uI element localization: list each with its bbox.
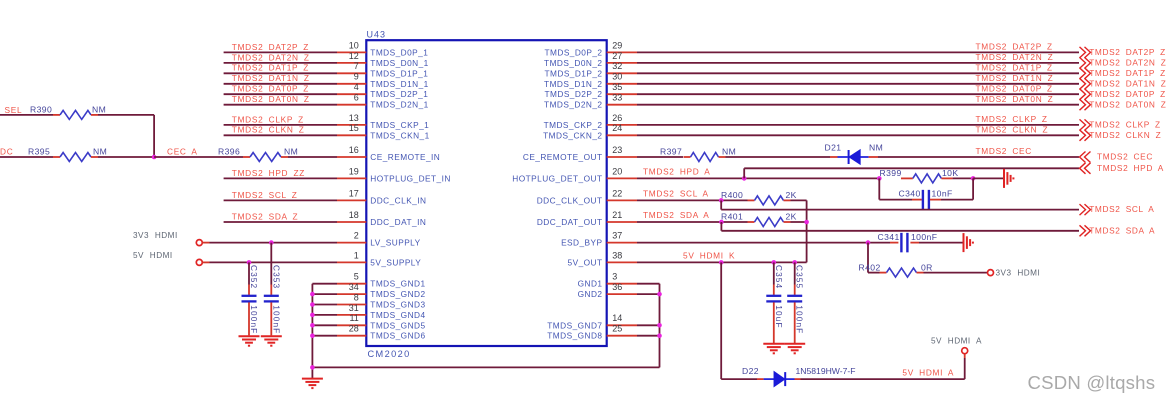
svg-text:TMDS2 HPD A: TMDS2 HPD A xyxy=(643,167,710,177)
svg-text:10: 10 xyxy=(349,40,359,50)
wire TMDS2 DAT2N Z left xyxy=(224,62,337,64)
wire pin 21 TMDS2 SDA A xyxy=(637,221,748,223)
junction xyxy=(719,220,724,225)
U43 pin 1 (5V_SUPPLY) xyxy=(337,250,421,267)
junction xyxy=(310,292,315,297)
wire TMDS_GND2 to bus xyxy=(312,293,337,295)
net label TMDS2 HPD ZZ xyxy=(232,168,305,178)
U43 pin 3 (GND1) xyxy=(578,272,637,289)
svg-text:3V3 HDMI: 3V3 HDMI xyxy=(133,231,178,240)
U43 pin 24 (TMDS_CKN_2) xyxy=(543,123,637,140)
net label 5V HDMI K xyxy=(683,251,735,261)
svg-text:NM: NM xyxy=(722,147,736,157)
svg-text:100nF: 100nF xyxy=(911,232,937,242)
svg-text:TMDS2 DAT1N Z: TMDS2 DAT1N Z xyxy=(1089,78,1166,88)
net label TMDS2 CLKN Z left xyxy=(232,125,305,135)
svg-text:1N5819HW-7-F: 1N5819HW-7-F xyxy=(796,366,856,376)
svg-text:TMDS2 HPD ZZ: TMDS2 HPD ZZ xyxy=(232,168,305,178)
svg-text:5V_OUT: 5V_OUT xyxy=(568,257,603,267)
svg-text:TMDS_CKN_2: TMDS_CKN_2 xyxy=(543,130,602,140)
svg-text:TMDS2 DAT1P Z: TMDS2 DAT1P Z xyxy=(1089,68,1166,78)
svg-text:TMDS_GND1: TMDS_GND1 xyxy=(370,279,425,289)
svg-text:9: 9 xyxy=(354,72,359,82)
wire TMDS_GND5 to bus xyxy=(312,324,337,326)
wire DC net xyxy=(0,156,53,158)
wire R399 right to junction xyxy=(953,177,974,179)
svg-text:19: 19 xyxy=(349,166,359,176)
U43 pin 35 (TMDS_D2P_2) xyxy=(545,82,638,99)
svg-text:TMDS2 DAT2P Z: TMDS2 DAT2P Z xyxy=(976,42,1053,52)
svg-text:TMDS2 SDA A: TMDS2 SDA A xyxy=(1089,225,1155,235)
junction xyxy=(719,260,724,265)
junction xyxy=(657,292,662,297)
net label TMDS2 DAT2N Z left xyxy=(232,52,310,62)
resistor R395 (NM) xyxy=(28,147,107,162)
off-page connector TMDS2 DAT2N Z xyxy=(1080,57,1167,68)
off-page connector TMDS2 SCL A xyxy=(1080,204,1155,215)
wire GND pin to right bus xyxy=(637,335,660,337)
svg-text:TMDS2 DAT1P Z: TMDS2 DAT1P Z xyxy=(232,63,309,73)
svg-text:TMDS2 DAT0N Z: TMDS2 DAT0N Z xyxy=(1089,99,1166,109)
wire SDA jog to off-page xyxy=(721,222,1079,231)
net label TMDS2 DAT2P Z left xyxy=(232,42,309,52)
svg-text:DC: DC xyxy=(0,146,13,156)
svg-text:TMDS_D2P_1: TMDS_D2P_1 xyxy=(370,89,428,99)
wire junction to ground xyxy=(973,177,1004,179)
wire pin 38 5V HDMI K xyxy=(637,261,807,263)
net label TMDS2 DAT0P Z left xyxy=(232,84,309,94)
junction xyxy=(657,323,662,328)
net label TMDS2 CLKP Z left xyxy=(232,114,304,124)
wire GND pin to right bus xyxy=(637,283,660,285)
svg-text:100nF: 100nF xyxy=(271,305,281,334)
svg-text:36: 36 xyxy=(612,282,622,292)
net label TMDS2 SDA Z xyxy=(232,211,298,221)
wire GND pin to right bus xyxy=(637,324,660,326)
wire 3V3 HDMI to pin 2 xyxy=(202,242,337,244)
svg-text:R397: R397 xyxy=(660,147,682,157)
svg-text:34: 34 xyxy=(349,282,359,292)
svg-text:R399: R399 xyxy=(880,168,902,178)
net label TMDS2 CLKN Z right xyxy=(976,125,1049,135)
wire GND pin to right bus xyxy=(637,293,660,295)
U43 pin 26 (TMDS_CKP_2) xyxy=(544,113,637,130)
svg-text:5V HDMI A: 5V HDMI A xyxy=(902,367,954,377)
junction xyxy=(877,176,882,181)
svg-text:TMDS_D2P_2: TMDS_D2P_2 xyxy=(545,89,603,99)
wire R390 to CEC node xyxy=(98,115,154,157)
wire pin 37 ESD_BYP xyxy=(637,242,890,244)
U43 pin 37 (ESD_BYP) xyxy=(561,231,637,248)
wire C341 to ground xyxy=(919,242,964,244)
wire TMDS_GND1 to bus xyxy=(312,283,337,285)
wire TMDS2 SCL Z xyxy=(224,199,337,201)
svg-text:TMDS_D0P_2: TMDS_D0P_2 xyxy=(545,47,603,57)
wire TMDS2 DAT2P Z left xyxy=(224,51,337,53)
svg-text:100nF: 100nF xyxy=(249,305,259,334)
U43 pin 38 (5V_OUT) xyxy=(568,250,637,267)
svg-text:ESD_BYP: ESD_BYP xyxy=(561,238,602,248)
svg-text:7: 7 xyxy=(354,61,359,71)
wire R395 to node CEC A xyxy=(98,156,154,158)
U43 pin 14 (TMDS_GND7) xyxy=(547,313,637,330)
svg-text:TMDS_GND2: TMDS_GND2 xyxy=(370,289,425,299)
svg-text:21: 21 xyxy=(612,210,622,220)
wire TMDS2 SDA Z xyxy=(224,221,337,223)
wire TMDS2 CLKN Z right xyxy=(637,134,1079,136)
U43 pin 4 (TMDS_D2P_1) xyxy=(337,82,428,99)
svg-text:TMDS_D0P_1: TMDS_D0P_1 xyxy=(370,47,428,57)
svg-text:23: 23 xyxy=(612,145,622,155)
U43 pin 2 (LV_SUPPLY) xyxy=(337,231,421,248)
wire TMDS2 DAT1P Z right xyxy=(637,72,1079,74)
svg-text:4: 4 xyxy=(354,82,359,92)
net label TMDS2 DAT2P Z right xyxy=(976,42,1053,52)
net label TMDS2 HPD A xyxy=(643,167,710,177)
svg-text:38: 38 xyxy=(612,250,622,260)
svg-text:22: 22 xyxy=(612,188,622,198)
svg-text:TMDS2 SDA A: TMDS2 SDA A xyxy=(643,210,710,220)
junction xyxy=(657,333,662,338)
net label DC xyxy=(0,146,13,156)
wire TMDS2 CLKP Z right xyxy=(637,124,1079,126)
svg-text:0R: 0R xyxy=(921,262,933,272)
svg-text:TMDS_CKP_2: TMDS_CKP_2 xyxy=(544,120,603,130)
svg-text:DDC_CLK_OUT: DDC_CLK_OUT xyxy=(537,195,603,205)
svg-text:CEC A: CEC A xyxy=(167,146,198,156)
svg-text:TMDS2 DAT0P Z: TMDS2 DAT0P Z xyxy=(1089,89,1166,99)
svg-text:R401: R401 xyxy=(721,212,743,222)
wire TMDS2 DAT1N Z right xyxy=(637,83,1079,85)
off-page connector TMDS2 DAT1P Z xyxy=(1080,68,1166,79)
svg-text:30: 30 xyxy=(612,72,622,82)
U43 pin 34 (TMDS_GND2) xyxy=(337,282,426,299)
wire node to R396 xyxy=(154,156,243,158)
svg-text:R395: R395 xyxy=(28,147,50,157)
wire TMDS2 DAT1N Z left xyxy=(224,83,337,85)
terminal 3V3 HDMI xyxy=(133,231,202,246)
junction xyxy=(310,365,315,370)
resistor R401 2K xyxy=(721,212,797,227)
svg-text:TMDS2 DAT0P Z: TMDS2 DAT0P Z xyxy=(976,83,1053,93)
net label TMDS2 DAT2N Z right xyxy=(976,52,1054,62)
svg-text:C340: C340 xyxy=(899,189,921,199)
U43 pin 15 (TMDS_CKN_1) xyxy=(337,123,430,140)
resistor R390 (NM) xyxy=(30,104,106,119)
wire TMDS2 CLKP Z left xyxy=(224,124,337,126)
junction xyxy=(310,313,315,318)
off-page connector TMDS2 DAT1N Z xyxy=(1080,78,1167,89)
svg-text:5: 5 xyxy=(354,272,359,282)
wire HPD jog to off-page xyxy=(744,168,1079,178)
svg-text:DDC_DAT_IN: DDC_DAT_IN xyxy=(370,217,426,227)
svg-text:TMDS_D2N_2: TMDS_D2N_2 xyxy=(544,100,602,110)
wire TMDS2 DAT2N Z right xyxy=(637,62,1079,64)
net label TMDS2 DAT1N Z left xyxy=(232,73,310,83)
ground C353 xyxy=(261,336,282,346)
ground C352 xyxy=(239,336,260,346)
svg-text:TMDS_CKN_1: TMDS_CKN_1 xyxy=(370,130,429,140)
svg-text:2: 2 xyxy=(354,231,359,241)
capacitor C353 100nF xyxy=(264,243,282,336)
svg-text:C341: C341 xyxy=(878,232,900,242)
junction xyxy=(247,260,252,265)
svg-text:NM: NM xyxy=(869,142,883,152)
ground main xyxy=(302,379,323,389)
svg-text:TMDS2 DAT2N Z: TMDS2 DAT2N Z xyxy=(232,52,310,62)
svg-text:SEL: SEL xyxy=(5,105,23,115)
svg-text:NM: NM xyxy=(93,147,107,157)
capacitor C340 10nF xyxy=(879,178,973,209)
terminal 5V HDMI A xyxy=(931,336,982,353)
svg-text:TMDS_D1N_2: TMDS_D1N_2 xyxy=(544,79,602,89)
U43 pin 11 (TMDS_GND5) xyxy=(337,313,426,330)
svg-text:D22: D22 xyxy=(742,366,759,376)
svg-text:11: 11 xyxy=(349,313,358,323)
net label 5V HDMI A xyxy=(902,367,954,377)
svg-text:TMDS_GND6: TMDS_GND6 xyxy=(370,331,425,341)
svg-text:10nF: 10nF xyxy=(932,189,953,199)
ground C354 xyxy=(763,344,784,354)
capacitor C355 100nF xyxy=(787,262,805,343)
wire D21 to TMDS2 CEC off-page xyxy=(878,156,1079,158)
wire TMDS2 DAT2P Z right xyxy=(637,51,1079,53)
svg-text:10K: 10K xyxy=(942,168,959,178)
junction xyxy=(310,323,315,328)
off-page connector TMDS2 CLKN Z xyxy=(1080,130,1162,141)
wire TMDS2 DAT0P Z right xyxy=(637,93,1079,95)
svg-text:R402: R402 xyxy=(859,262,881,272)
wire TMDS_GND6 to bus xyxy=(312,335,337,337)
svg-text:TMDS2 DAT0N Z: TMDS2 DAT0N Z xyxy=(232,94,310,104)
svg-text:TMDS2 CLKP Z: TMDS2 CLKP Z xyxy=(976,114,1048,124)
net label TMDS2 DAT1P Z left xyxy=(232,63,309,73)
wire TMDS_GND3 to bus xyxy=(312,304,337,306)
svg-text:15: 15 xyxy=(349,123,359,133)
net label TMDS2 SCL A xyxy=(643,189,709,199)
wire left TMDS_GND bus vertical xyxy=(311,284,313,379)
U43 pin 7 (TMDS_D1P_1) xyxy=(337,61,428,78)
ground HPD pulldown xyxy=(1004,169,1013,188)
svg-text:3V3 HDMI: 3V3 HDMI xyxy=(996,269,1041,278)
U43 pin 33 (TMDS_D2N_2) xyxy=(544,93,637,110)
U43 pin 19 (HOTPLUG_DET_IN) xyxy=(337,166,451,183)
U43 pin 23 (CE_REMOTE_OUT) xyxy=(523,145,637,162)
svg-text:GND2: GND2 xyxy=(578,289,603,299)
svg-text:5V_SUPPLY: 5V_SUPPLY xyxy=(370,257,421,267)
net label TMDS2 CLKP Z right xyxy=(976,114,1048,124)
IC U43 CM2020 body xyxy=(366,29,606,359)
svg-text:25: 25 xyxy=(612,324,622,334)
ground C355 xyxy=(784,344,805,354)
svg-text:R396: R396 xyxy=(218,147,240,157)
junction xyxy=(742,176,747,181)
off-page connector TMDS2 HPD A xyxy=(1080,163,1164,174)
net label TMDS2 SCL Z xyxy=(232,190,298,200)
wire pin 20 TMDS2 HPD A xyxy=(637,177,879,179)
wire 5V K down to D22 xyxy=(721,262,757,379)
off-page connector TMDS2 DAT0N Z xyxy=(1080,99,1167,110)
wire TMDS2 DAT0N Z left xyxy=(224,104,337,106)
svg-text:TMDS2 SCL A: TMDS2 SCL A xyxy=(1089,204,1154,214)
svg-text:12: 12 xyxy=(349,51,359,61)
svg-text:TMDS_D0N_1: TMDS_D0N_1 xyxy=(370,58,428,68)
wire pin 22 TMDS2 SCL A xyxy=(637,199,748,201)
svg-text:TMDS_CKP_1: TMDS_CKP_1 xyxy=(370,120,429,130)
wire SCL jog to off-page xyxy=(721,200,1079,209)
svg-text:TMDS_D1P_2: TMDS_D1P_2 xyxy=(545,68,603,78)
junction xyxy=(269,240,274,245)
svg-text:TMDS2 DAT2P Z: TMDS2 DAT2P Z xyxy=(232,42,309,52)
wire right GND bus vertical xyxy=(659,284,661,368)
svg-text:TMDS2 DAT1P Z: TMDS2 DAT1P Z xyxy=(976,63,1053,73)
U43 pin 31 (TMDS_GND4) xyxy=(337,303,426,320)
svg-text:TMDS_D1N_1: TMDS_D1N_1 xyxy=(370,79,428,89)
svg-text:16: 16 xyxy=(349,145,359,155)
wire TMDS2 DAT0P Z left xyxy=(224,93,337,95)
svg-text:28: 28 xyxy=(349,324,359,334)
resistor R396 (NM) xyxy=(218,147,298,162)
svg-text:TMDS2 CEC: TMDS2 CEC xyxy=(976,146,1032,156)
resistor R397 (NM) xyxy=(660,147,736,162)
svg-text:TMDS2 CLKP Z: TMDS2 CLKP Z xyxy=(1089,120,1161,130)
svg-text:TMDS_GND4: TMDS_GND4 xyxy=(370,310,425,320)
svg-text:100nF: 100nF xyxy=(795,305,805,334)
net label TMDS2 DAT1N Z right xyxy=(976,73,1054,83)
svg-text:TMDS2 DAT2N Z: TMDS2 DAT2N Z xyxy=(976,52,1054,62)
junction xyxy=(866,240,871,245)
svg-text:TMDS2 HPD A: TMDS2 HPD A xyxy=(1097,163,1164,173)
diode D21 (NM) xyxy=(825,142,884,164)
off-page connector TMDS2 CEC xyxy=(1080,152,1154,163)
ground C341 xyxy=(964,233,973,252)
wire R396 to pin 16 xyxy=(288,156,337,158)
resistor R399 10K xyxy=(880,168,959,183)
U43 pin 5 (TMDS_GND1) xyxy=(337,272,426,289)
wire R397 to D21 xyxy=(726,156,831,158)
net label TMDS2 DAT0N Z left xyxy=(232,94,310,104)
svg-text:D21: D21 xyxy=(825,142,842,152)
wire R401 to 5V vertical xyxy=(791,221,807,223)
svg-text:27: 27 xyxy=(612,51,622,61)
U43 pin 36 (GND2) xyxy=(578,282,637,299)
U43 pin 30 (TMDS_D1N_2) xyxy=(544,72,637,89)
svg-text:5V HDMI K: 5V HDMI K xyxy=(683,251,735,261)
svg-text:5V HDMI A: 5V HDMI A xyxy=(931,336,982,345)
net label TMDS2 DAT0P Z right xyxy=(976,83,1053,93)
diode D22 1N5819HW-7-F xyxy=(742,366,856,386)
svg-text:TMDS2 DAT0N Z: TMDS2 DAT0N Z xyxy=(976,94,1054,104)
svg-text:18: 18 xyxy=(349,210,359,220)
wire D22 to 5V HDMI A terminal xyxy=(801,354,965,380)
svg-text:C352: C352 xyxy=(249,265,259,289)
junction xyxy=(310,333,315,338)
svg-text:8: 8 xyxy=(354,292,359,302)
terminal 3V3 HDMI right xyxy=(988,269,1041,278)
junction xyxy=(310,302,315,307)
svg-text:TMDS2 SCL Z: TMDS2 SCL Z xyxy=(232,190,298,200)
svg-text:17: 17 xyxy=(349,188,359,198)
svg-text:TMDS2 DAT0P Z: TMDS2 DAT0P Z xyxy=(232,84,309,94)
junction xyxy=(971,176,976,181)
U43 pin 13 (TMDS_CKP_1) xyxy=(337,113,429,130)
svg-text:TMDS2 CLKN Z: TMDS2 CLKN Z xyxy=(232,125,305,135)
svg-text:2K: 2K xyxy=(786,212,797,222)
U43 pin 9 (TMDS_D1N_1) xyxy=(337,72,429,89)
terminal 5V HDMI xyxy=(133,251,202,266)
svg-text:TMDS_GND5: TMDS_GND5 xyxy=(370,320,425,330)
off-page connector TMDS2 DAT2P Z xyxy=(1080,47,1166,58)
svg-text:CE_REMOTE_IN: CE_REMOTE_IN xyxy=(370,152,440,162)
wire TMDS2 DAT0N Z right xyxy=(637,104,1079,106)
svg-text:HOTPLUG_DET_OUT: HOTPLUG_DET_OUT xyxy=(512,173,602,183)
wire bottom ground bus xyxy=(312,366,659,368)
svg-text:10uF: 10uF xyxy=(774,305,784,328)
svg-text:TMDS2 CLKP Z: TMDS2 CLKP Z xyxy=(232,114,304,124)
capacitor C341 100nF xyxy=(878,232,938,252)
svg-text:6: 6 xyxy=(354,93,359,103)
U43 pin 16 (CE_REMOTE_IN) xyxy=(337,145,440,162)
wire TMDS2 DAT1P Z left xyxy=(224,72,337,74)
svg-text:C353: C353 xyxy=(271,265,281,289)
capacitor C352 100nF xyxy=(242,262,260,335)
svg-text:CM2020: CM2020 xyxy=(368,349,411,359)
wire SEL net xyxy=(0,114,53,116)
svg-text:R400: R400 xyxy=(721,190,743,200)
svg-text:DDC_DAT_OUT: DDC_DAT_OUT xyxy=(537,217,603,227)
svg-text:20: 20 xyxy=(612,166,622,176)
wire ESD node to R402 xyxy=(868,243,880,273)
junction xyxy=(152,155,157,160)
svg-text:14: 14 xyxy=(612,313,622,323)
svg-text:TMDS2 DAT1N Z: TMDS2 DAT1N Z xyxy=(976,73,1054,83)
U43 pin 10 (TMDS_D0P_1) xyxy=(337,40,428,57)
svg-text:5V HDMI: 5V HDMI xyxy=(133,251,173,260)
svg-text:TMDS2 DAT2P Z: TMDS2 DAT2P Z xyxy=(1089,47,1166,57)
resistor R400 2K xyxy=(721,190,797,205)
svg-text:TMDS_GND8: TMDS_GND8 xyxy=(547,331,602,341)
junction xyxy=(719,198,724,203)
svg-text:CSDN @ltqshs: CSDN @ltqshs xyxy=(1028,372,1156,393)
U43 pin 29 (TMDS_D0P_2) xyxy=(545,40,638,57)
svg-text:DDC_CLK_IN: DDC_CLK_IN xyxy=(370,195,426,205)
junction xyxy=(772,260,777,265)
U43 pin 28 (TMDS_GND6) xyxy=(337,324,426,341)
wire R402 to 3V3 terminal xyxy=(924,272,988,274)
svg-text:3: 3 xyxy=(612,272,617,282)
svg-text:13: 13 xyxy=(349,113,359,123)
svg-text:TMDS2 DAT2N Z: TMDS2 DAT2N Z xyxy=(1089,58,1166,68)
wire 5V HDMI to pin 1 xyxy=(202,261,337,263)
net label TMDS2 DAT0N Z right xyxy=(976,94,1054,104)
wire pin 23 to R397 xyxy=(637,156,683,158)
svg-text:GND1: GND1 xyxy=(578,279,603,289)
svg-text:CE_REMOTE_OUT: CE_REMOTE_OUT xyxy=(523,152,603,162)
svg-text:TMDS_GND3: TMDS_GND3 xyxy=(370,300,425,310)
svg-text:NM: NM xyxy=(284,147,298,157)
watermark text xyxy=(1028,372,1156,393)
svg-text:U43: U43 xyxy=(367,29,387,39)
U43 pin 21 (DDC_DAT_OUT) xyxy=(537,210,637,227)
wire TMDS2 HPD ZZ xyxy=(224,177,337,179)
off-page connector TMDS2 DAT0P Z xyxy=(1080,89,1166,100)
resistor R402 0R xyxy=(859,262,933,277)
svg-text:31: 31 xyxy=(349,303,359,313)
off-page connector TMDS2 SDA A xyxy=(1080,225,1156,236)
svg-text:C355: C355 xyxy=(795,265,805,289)
net label SEL xyxy=(5,105,23,115)
svg-text:TMDS2 SDA Z: TMDS2 SDA Z xyxy=(232,211,298,221)
